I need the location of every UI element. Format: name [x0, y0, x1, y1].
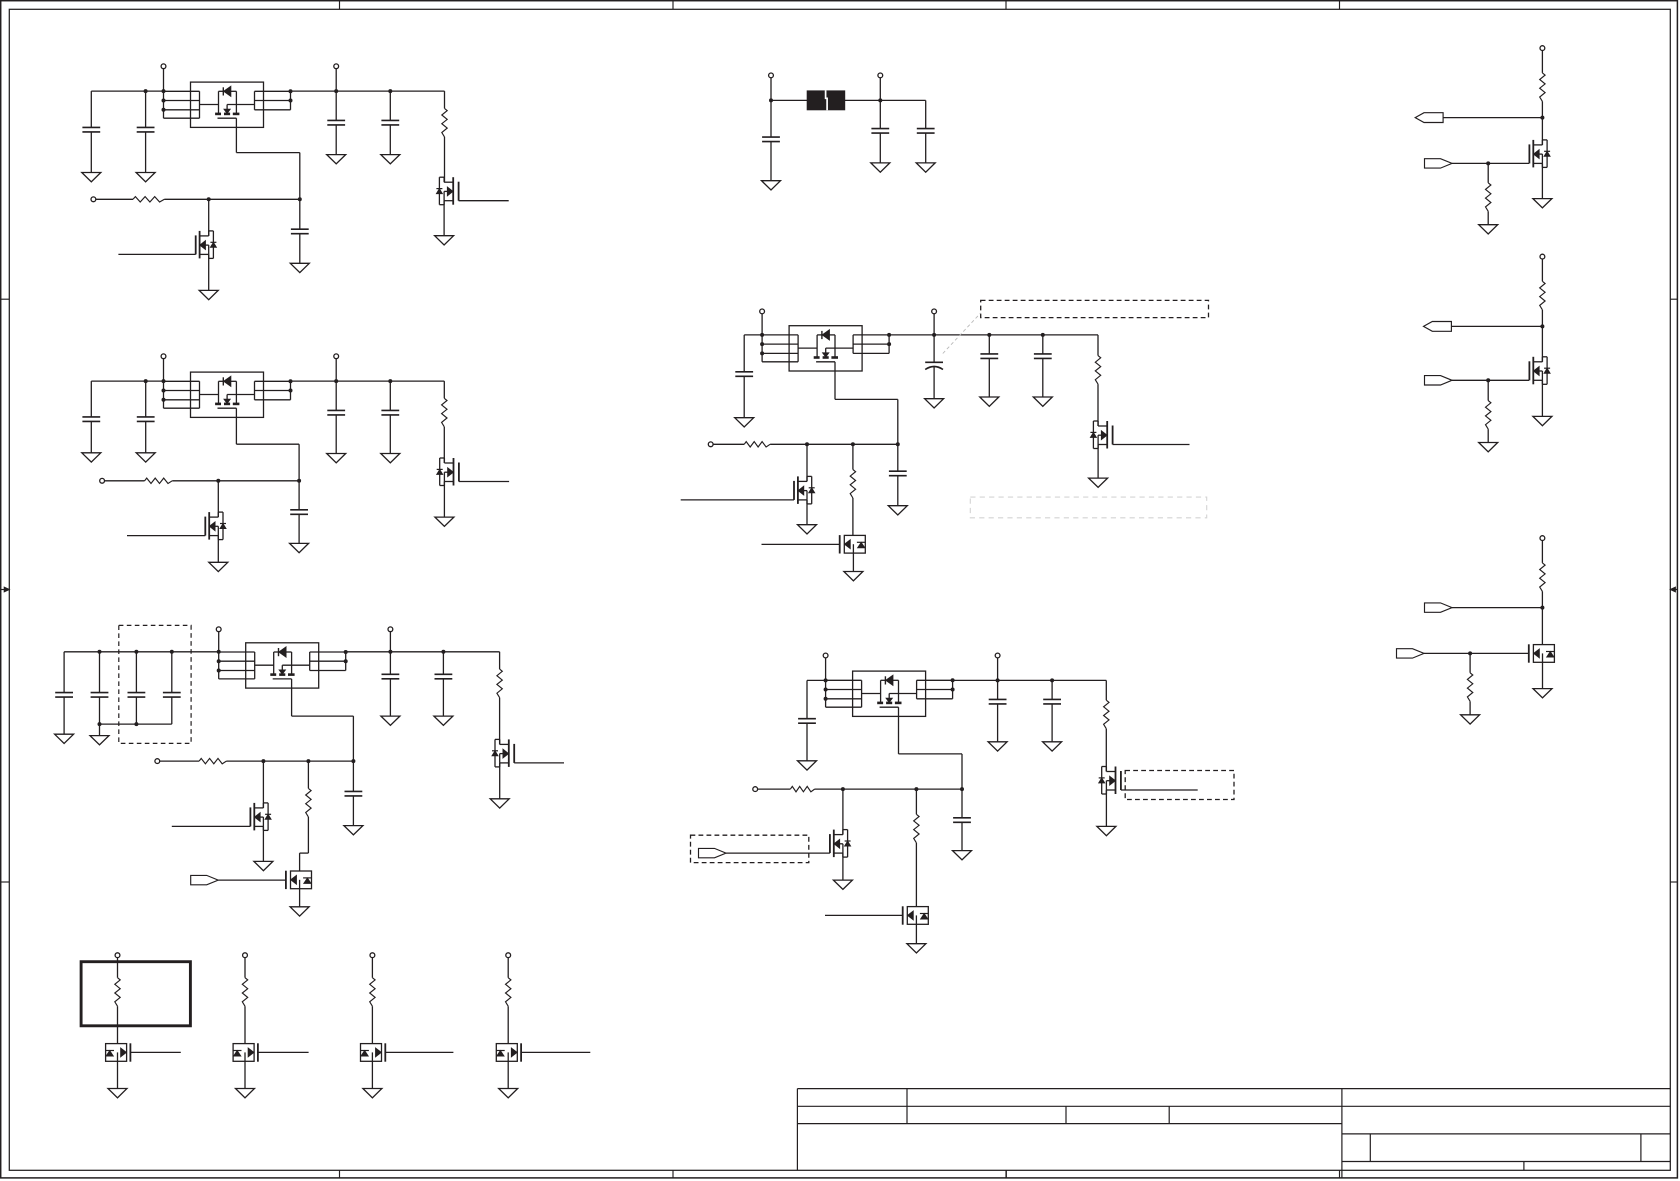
terminal EN4 [708, 442, 713, 447]
transistor Q9 [797, 476, 799, 504]
resistor R5 [499, 652, 501, 669]
ground under Q15 [1541, 380, 1543, 416]
node: Q12 drain junction [841, 787, 845, 791]
terminal VIN2 [161, 354, 166, 359]
transistor Q15 [1532, 357, 1534, 385]
terminal VIN4 [760, 309, 765, 314]
node: sense output [1540, 324, 1544, 328]
transistor Q4 [208, 512, 210, 540]
transistor Q6 [253, 803, 255, 831]
wire: U3 gate net route [291, 688, 293, 716]
transistor QD2 [233, 1044, 254, 1062]
node: pulldown junction [914, 787, 918, 791]
node: gate RC junction [351, 759, 355, 763]
ferrite bead FB1 [807, 91, 845, 110]
connector flag K6 (input) [1425, 376, 1453, 385]
connector flag K3 (output) [1415, 113, 1443, 123]
node: gate divider [1468, 651, 1472, 655]
resistor R7 [307, 761, 309, 788]
wire: bead rail [771, 99, 807, 101]
capacitor C6 [90, 381, 92, 417]
transistor Q14 [1532, 140, 1534, 168]
terminal VIN3 [216, 627, 221, 632]
capacitor C12 [99, 652, 101, 693]
transistor QD3 [361, 1044, 382, 1062]
wire: Q7 gate [218, 879, 286, 881]
terminal VIN1 [161, 64, 166, 69]
terminal VOUT2 [334, 354, 339, 359]
dashed leader line [943, 313, 981, 354]
resistor R9 [744, 442, 770, 447]
ground under QD3 [371, 1061, 373, 1088]
terminal VB2 [878, 73, 883, 78]
capacitor C29 [961, 789, 963, 818]
wire: Q6 drain [262, 761, 264, 808]
wire: to Q15 drain [1541, 326, 1543, 361]
terminal P3 [370, 953, 375, 958]
wire: QD4 gate lead [521, 1051, 590, 1053]
transistor Q13 [907, 907, 928, 925]
ground under R19 [1461, 715, 1480, 724]
wire: input power rail [64, 651, 219, 653]
node: pull-up node [1540, 606, 1544, 610]
wire: QD1 gate lead [130, 1051, 180, 1053]
wire: input power rail [91, 90, 163, 92]
capacitor C9 [389, 381, 391, 410]
capacitor C17 [352, 761, 354, 791]
wire: Q6 gate stub [172, 825, 251, 827]
frame center arrow left [1, 589, 10, 591]
capacitor C21 [743, 335, 745, 372]
ground under Q9 [806, 500, 808, 525]
wire: Q5 gate lead [514, 762, 564, 764]
resistor RD1 [115, 978, 120, 1007]
terminal EN5 [753, 787, 758, 792]
terminal EN2 [100, 478, 105, 483]
resistor RD3 [370, 978, 375, 1007]
node: gate RC junction [298, 197, 302, 201]
resistor R4 [145, 478, 173, 483]
wire: output power rail [291, 90, 445, 92]
node: pulldown junction [306, 759, 310, 763]
power MOSFET U1 (load switch package) [191, 82, 264, 127]
wire: Q14 gate [1452, 162, 1529, 164]
wire: to Q16 drain [1541, 608, 1543, 645]
wire: output line [1443, 117, 1542, 119]
transistor Q2 [199, 231, 201, 259]
wire: Q11 gate lead [1121, 789, 1198, 791]
wire: QD2 gate lead [258, 1051, 309, 1053]
capacitor C19 [879, 100, 881, 128]
resistor RD2 [242, 978, 247, 1007]
wire: Q2 gate stub [118, 253, 195, 255]
capacitor C27 [997, 680, 999, 699]
transistor Q16 [1533, 645, 1554, 663]
capacitor C15 [389, 652, 391, 675]
power MOSFET U4 (load switch package) [789, 326, 862, 371]
capacitor C3 [335, 91, 337, 120]
title block table [797, 1088, 1670, 1090]
ground under Q3 [443, 482, 445, 518]
resistor R15 [1487, 163, 1489, 182]
ground under Q5 [499, 763, 501, 799]
resistor R12 [790, 786, 814, 791]
node: gate divider [1486, 161, 1490, 165]
transistor Q12 [833, 830, 835, 858]
connector flag K8 [1397, 649, 1425, 658]
wire: input power rail [807, 679, 826, 681]
ground under QD1 [117, 1061, 119, 1088]
connector flag K7 [1425, 603, 1453, 612]
wire: Q13 gate stub [825, 914, 903, 916]
terminal EN3 [155, 759, 160, 764]
transistor Q8 [1106, 421, 1108, 449]
frame center arrow right [1670, 589, 1677, 591]
capacitor C5 [299, 199, 301, 229]
ground under Q14 [1541, 163, 1543, 198]
wire: Q15 gate [1452, 379, 1529, 381]
transistor Q7 [291, 871, 312, 889]
resistor R16 [1540, 281, 1545, 310]
capacitor C20 [925, 100, 927, 128]
terminal VR1 [1540, 46, 1545, 51]
wire: Q4 gate stub [127, 535, 205, 537]
resistor R13 [915, 789, 917, 814]
capacitor C4 [389, 91, 391, 120]
connector flag K2 [699, 848, 727, 857]
wire: U4 gate net route [834, 371, 836, 399]
wire: input power rail [91, 380, 163, 382]
capacitor C7 [145, 381, 147, 417]
node: gate divider [1486, 378, 1490, 382]
terminal EN1 [91, 197, 96, 202]
node: gate RC junction [297, 479, 301, 483]
terminal P4 [506, 953, 511, 958]
ground under R15 [1479, 225, 1498, 234]
ground under R17 [1479, 443, 1498, 452]
ground under QD2 [244, 1061, 246, 1088]
ground under Q12 [842, 853, 844, 880]
capacitor C16 [442, 652, 444, 675]
terminal P1 [115, 953, 120, 958]
wire: Q1 gate lead [459, 200, 509, 202]
wire: Q3 gate lead [459, 481, 509, 483]
power MOSFET U3 (load switch package) [246, 643, 319, 688]
ground under Q13 [915, 924, 917, 943]
thick component box [81, 962, 190, 1026]
dashed annotation box 3 [1125, 771, 1234, 800]
dashed annotation box 4 [691, 835, 809, 862]
wire: U2 gate net route [235, 417, 237, 444]
capacitor C2 [145, 91, 147, 127]
wire: Q9 gate stub [681, 499, 794, 501]
ground under Q8 [1097, 445, 1099, 479]
capacitor C28 [1051, 680, 1053, 699]
power MOSFET U5 (load switch package) [853, 671, 926, 716]
node: sense output [1540, 116, 1544, 120]
wire: enable net [96, 198, 134, 200]
connector flag K5 (output) [1424, 322, 1452, 332]
wire: input power rail [744, 334, 762, 336]
terminal P2 [243, 953, 248, 958]
resistor R3 [443, 381, 445, 398]
node: Q6 drain junction [261, 759, 265, 763]
wire: Q16 gate [1424, 652, 1529, 654]
capacitor C11 [63, 652, 65, 693]
capacitor C22 (polarized) [933, 335, 935, 362]
resistor R6 [199, 758, 226, 763]
ground under Q10 [852, 553, 854, 571]
node: gate RC junction [960, 787, 964, 791]
terminal VOUT3 [388, 627, 393, 632]
resistor R18 [1540, 563, 1545, 592]
node: Q4 drain junction [216, 479, 220, 483]
wire: Q9 drain [806, 444, 808, 481]
wire: Q12 drain [842, 789, 844, 835]
capacitor C8 [335, 381, 337, 410]
resistor R1 [444, 91, 446, 108]
ground under Q1 [443, 201, 445, 236]
resistor R8 [1097, 335, 1099, 356]
power MOSFET U2 (load switch package) [191, 372, 264, 417]
terminal VIN5 [823, 653, 828, 658]
resistor R14 [1540, 73, 1545, 102]
resistor R2 [133, 197, 164, 202]
resistor R17 [1487, 380, 1489, 400]
wire: output line [1451, 325, 1542, 327]
wire: node line [1452, 607, 1542, 609]
wire: jog to Q7 [300, 852, 309, 854]
capacitor C13 [135, 652, 137, 693]
capacitor C10 [298, 481, 300, 510]
terminal VOUT5 [995, 653, 1000, 658]
terminal VR3 [1540, 536, 1545, 541]
node: gate RC junction [896, 442, 900, 446]
node: Q9 drain junction [805, 442, 809, 446]
connector flag K1 [191, 875, 219, 884]
ground under Q4 [217, 536, 219, 563]
transistor QD4 [496, 1044, 517, 1062]
transistor Q1 [452, 177, 454, 205]
wire: U1 gate net route [235, 127, 237, 152]
capacitor C26 [806, 680, 808, 718]
capacitor C18 [770, 100, 772, 137]
wire: output power rail [346, 651, 500, 653]
wire: capacitor ground bus [100, 723, 172, 725]
wire: QD3 gate lead [385, 1051, 453, 1053]
resistor RD4 [506, 978, 511, 1007]
capacitor C1 [90, 91, 92, 127]
node: pulldown junction [851, 442, 855, 446]
wire: output power rail [291, 380, 445, 382]
wire: output power rail [953, 679, 1107, 681]
resistor R11 [1105, 680, 1107, 700]
capacitor C23 [988, 335, 990, 354]
capacitor C24 [1042, 335, 1044, 354]
capacitor C14 [171, 652, 173, 693]
dashed annotation box 1 [981, 300, 1209, 317]
capacitor C25 [897, 444, 899, 471]
resistor R19 [1469, 653, 1471, 672]
ground under Q7 [299, 889, 301, 907]
connector flag K4 (input) [1425, 159, 1453, 168]
wire: U5 gate net route [898, 716, 900, 754]
ground under C12 bus [99, 724, 101, 736]
dashed annotation box 2 (faint) [970, 497, 1206, 518]
wire: output power rail [889, 334, 1098, 336]
node: input rail junctions [162, 89, 166, 93]
transistor Q5 [508, 739, 510, 767]
wire: Q10 gate stub [762, 543, 840, 545]
dashed option box around C13/C14 [119, 625, 191, 743]
wire: Q8 gate lead [1113, 444, 1190, 446]
wire: Q4 drain [217, 481, 219, 517]
transistor QD1 [106, 1044, 127, 1062]
ground under QD4 [507, 1061, 509, 1088]
wire: to Q14 drain [1541, 118, 1543, 145]
wire: Q12 gate [726, 852, 830, 854]
terminal VB1 [769, 73, 774, 78]
resistor R10 [852, 444, 854, 469]
terminal VR2 [1540, 254, 1545, 259]
node: Q2 drain junction [207, 197, 211, 201]
ground under Q2 [208, 254, 210, 290]
ground under Q11 [1105, 790, 1107, 826]
transistor Q3 [453, 458, 455, 486]
terminal VOUT4 [932, 309, 937, 314]
transistor Q11 [1115, 767, 1117, 795]
transistor Q10 [844, 535, 865, 553]
terminal VOUT1 [334, 64, 339, 69]
wire: Q2 drain [208, 199, 210, 236]
ground under Q6 [262, 826, 264, 861]
ground under Q16 [1542, 662, 1544, 688]
